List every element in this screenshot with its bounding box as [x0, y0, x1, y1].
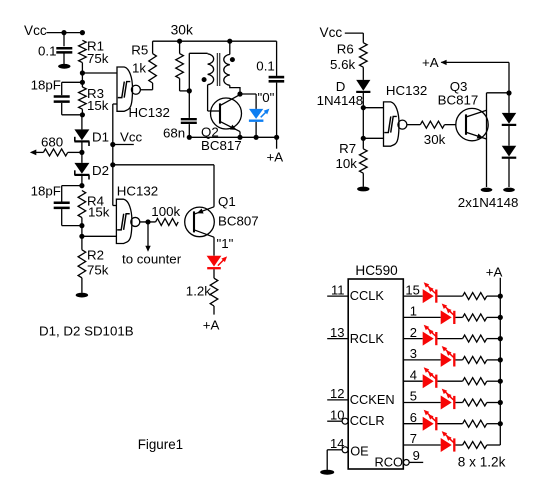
svg-text:11: 11 — [331, 282, 345, 297]
svg-text:HC132: HC132 — [386, 83, 427, 98]
svg-text:R2: R2 — [87, 247, 104, 262]
svg-text:1k: 1k — [132, 61, 146, 76]
svg-text:15k: 15k — [87, 98, 109, 113]
svg-text:5.6k: 5.6k — [330, 57, 355, 72]
svg-text:to counter: to counter — [122, 252, 182, 267]
svg-text:BC807: BC807 — [218, 214, 259, 229]
svg-text:R6: R6 — [337, 41, 354, 56]
svg-text:14: 14 — [330, 436, 344, 451]
svg-text:D1, D2 SD101B: D1, D2 SD101B — [39, 323, 134, 338]
svg-text:HC132: HC132 — [117, 183, 158, 198]
svg-text:Vcc: Vcc — [120, 129, 143, 144]
svg-text:2x1N4148: 2x1N4148 — [458, 195, 519, 210]
svg-text:9: 9 — [413, 448, 420, 463]
svg-text:HC132: HC132 — [129, 105, 170, 120]
svg-text:D2: D2 — [92, 163, 109, 178]
svg-text:+A: +A — [203, 317, 220, 332]
svg-text:Vcc: Vcc — [320, 25, 343, 40]
svg-text:0.1: 0.1 — [38, 44, 57, 59]
svg-text:BC817: BC817 — [201, 138, 242, 153]
svg-text:13: 13 — [330, 325, 344, 340]
svg-text:OE: OE — [350, 444, 369, 459]
svg-text:D: D — [336, 79, 346, 94]
svg-text:75k: 75k — [87, 51, 109, 66]
svg-text:RCLK: RCLK — [350, 331, 385, 346]
svg-text:1N4148: 1N4148 — [317, 93, 364, 108]
svg-text:CCLK: CCLK — [350, 288, 385, 303]
svg-text:BC817: BC817 — [438, 93, 479, 108]
svg-text:"1": "1" — [217, 236, 234, 251]
svg-text:Vcc: Vcc — [24, 23, 47, 38]
svg-text:CCKEN: CCKEN — [350, 392, 395, 407]
svg-text:0.1: 0.1 — [256, 59, 275, 74]
svg-text:10: 10 — [330, 407, 344, 422]
svg-text:75k: 75k — [87, 263, 109, 278]
svg-text:R7: R7 — [339, 141, 356, 156]
svg-text:+A: +A — [422, 55, 439, 70]
svg-text:6: 6 — [410, 410, 417, 425]
svg-text:CCLR: CCLR — [350, 413, 385, 428]
svg-text:HC590: HC590 — [355, 263, 398, 278]
svg-text:15: 15 — [405, 282, 419, 297]
svg-text:D1: D1 — [92, 129, 109, 144]
svg-text:R5: R5 — [131, 42, 148, 57]
svg-text:"0": "0" — [258, 90, 275, 105]
svg-text:Figure1: Figure1 — [138, 437, 183, 452]
svg-text:3: 3 — [410, 346, 417, 361]
svg-text:Q1: Q1 — [218, 194, 236, 209]
svg-text:10k: 10k — [336, 156, 358, 171]
svg-text:12: 12 — [330, 386, 344, 401]
svg-text:68n: 68n — [163, 126, 185, 141]
svg-text:5: 5 — [410, 389, 417, 404]
svg-text:18pF: 18pF — [31, 77, 61, 92]
svg-text:1.2k: 1.2k — [186, 284, 211, 299]
svg-text:30k: 30k — [171, 23, 193, 38]
svg-text:18pF: 18pF — [31, 183, 61, 198]
svg-text:8 x 1.2k: 8 x 1.2k — [458, 454, 506, 469]
svg-text:15k: 15k — [88, 205, 110, 220]
svg-text:RCO: RCO — [375, 454, 403, 469]
svg-text:4: 4 — [410, 367, 417, 382]
svg-text:+A: +A — [267, 149, 284, 164]
svg-text:100k: 100k — [151, 204, 180, 219]
svg-text:680: 680 — [41, 135, 63, 150]
svg-text:2: 2 — [410, 325, 417, 340]
svg-text:+A: +A — [486, 265, 503, 280]
svg-text:1: 1 — [410, 304, 417, 319]
svg-text:30k: 30k — [424, 132, 446, 147]
svg-text:7: 7 — [410, 431, 417, 446]
